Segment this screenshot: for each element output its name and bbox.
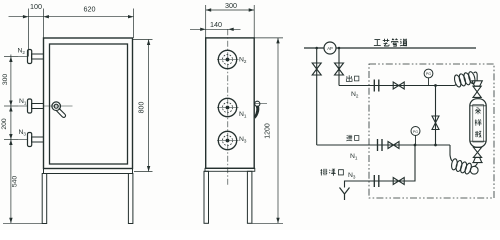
side door handle — [255, 101, 268, 118]
bottom coil — [450, 145, 478, 175]
valve V1 (tap A) — [312, 63, 321, 75]
nozzle labels front — [18, 48, 27, 137]
cabinet outer body — [44, 38, 133, 169]
valve V3 (outlet) — [393, 82, 404, 89]
svg-text:PG: PG — [426, 72, 431, 76]
svg-text:1200: 1200 — [265, 123, 272, 139]
svg-text:N2: N2 — [18, 48, 26, 56]
dimension 140 (side) — [190, 28, 241, 30]
nozzle N1 front — [18, 99, 44, 113]
svg-text:AP: AP — [327, 46, 333, 51]
svg-text:N3: N3 — [19, 129, 27, 137]
inlet pipe 进口 — [317, 144, 450, 146]
flange pair outlet — [374, 80, 379, 92]
svg-text:N1: N1 — [239, 111, 247, 119]
svg-text:N1: N1 — [350, 153, 358, 161]
svg-text:800: 800 — [139, 102, 146, 114]
process line — [304, 47, 476, 49]
port labels side — [239, 57, 247, 144]
port circle N1 side — [217, 98, 239, 116]
dimension 300 (side top) — [206, 5, 255, 38]
sample bottle 采样瓶 — [470, 99, 486, 148]
left leg front — [42, 174, 47, 224]
svg-text:N3: N3 — [239, 136, 247, 144]
svg-text:N3: N3 — [348, 172, 356, 180]
svg-text:N1: N1 — [19, 98, 27, 106]
cabinet base band — [44, 169, 133, 174]
side left leg — [204, 171, 209, 223]
side base band — [205, 168, 255, 171]
orifice AP — [324, 42, 336, 54]
dimension 1200 (side right) — [252, 38, 283, 223]
port centerline vertical — [227, 29, 229, 186]
door handle centerline — [44, 105, 73, 107]
svg-text:PG: PG — [413, 130, 418, 134]
port circle N2 side — [217, 50, 239, 68]
dimension 100 (front top) — [9, 9, 134, 57]
label 排净口 N3 — [320, 169, 343, 176]
svg-text:N2: N2 — [351, 91, 359, 99]
door panel — [50, 44, 128, 164]
nozzle N3 front — [18, 133, 44, 147]
svg-text:300: 300 — [2, 74, 9, 86]
funnel top — [472, 81, 482, 86]
port circle N3 side — [217, 131, 239, 149]
valve V8 (drain) — [393, 178, 404, 185]
flange pair inlet — [378, 139, 383, 151]
tap line to outlet — [338, 48, 340, 86]
flange pair drain — [374, 175, 379, 187]
right leg front — [128, 174, 133, 224]
cabinet boundary dashed box — [369, 64, 494, 198]
top coil — [453, 71, 477, 88]
label 进口 N1 — [346, 135, 359, 141]
junction dots — [315, 47, 436, 147]
drain pipe — [345, 145, 416, 188]
svg-text:540: 540 — [12, 176, 19, 188]
dimension 620 (front top) — [133, 9, 135, 39]
valve V7 (inlet) — [388, 142, 399, 149]
nozzle N2 front — [18, 50, 44, 64]
outlet pipe 出口 — [339, 85, 455, 87]
door handle — [52, 102, 66, 118]
svg-text:100: 100 — [30, 2, 42, 11]
svg-text:200: 200 — [1, 118, 8, 130]
funnel bottom — [472, 157, 482, 162]
left dimension chain 300/200/540 — [3, 55, 47, 224]
dimension 800 (front right) — [133, 40, 153, 172]
svg-text:620: 620 — [84, 5, 96, 14]
valve V6 (bottle bottom) — [473, 147, 481, 157]
drain funnel Y — [340, 188, 350, 201]
valve V2 (tap B) — [335, 63, 344, 75]
gauge PG2 — [411, 127, 420, 146]
svg-text:140: 140 — [210, 20, 222, 29]
bypass line — [435, 86, 437, 146]
label 工艺管道 — [374, 39, 407, 47]
valve V5 (bottle top) — [473, 86, 481, 97]
svg-text:300: 300 — [225, 1, 237, 10]
tap line to inlet — [316, 48, 318, 145]
side right leg — [247, 171, 252, 223]
gauge PG1 — [424, 69, 433, 85]
side cabinet body — [206, 38, 255, 168]
valve V4 (bypass) — [432, 116, 439, 130]
label 出口 N2 — [346, 75, 359, 81]
svg-text:N2: N2 — [239, 57, 247, 65]
